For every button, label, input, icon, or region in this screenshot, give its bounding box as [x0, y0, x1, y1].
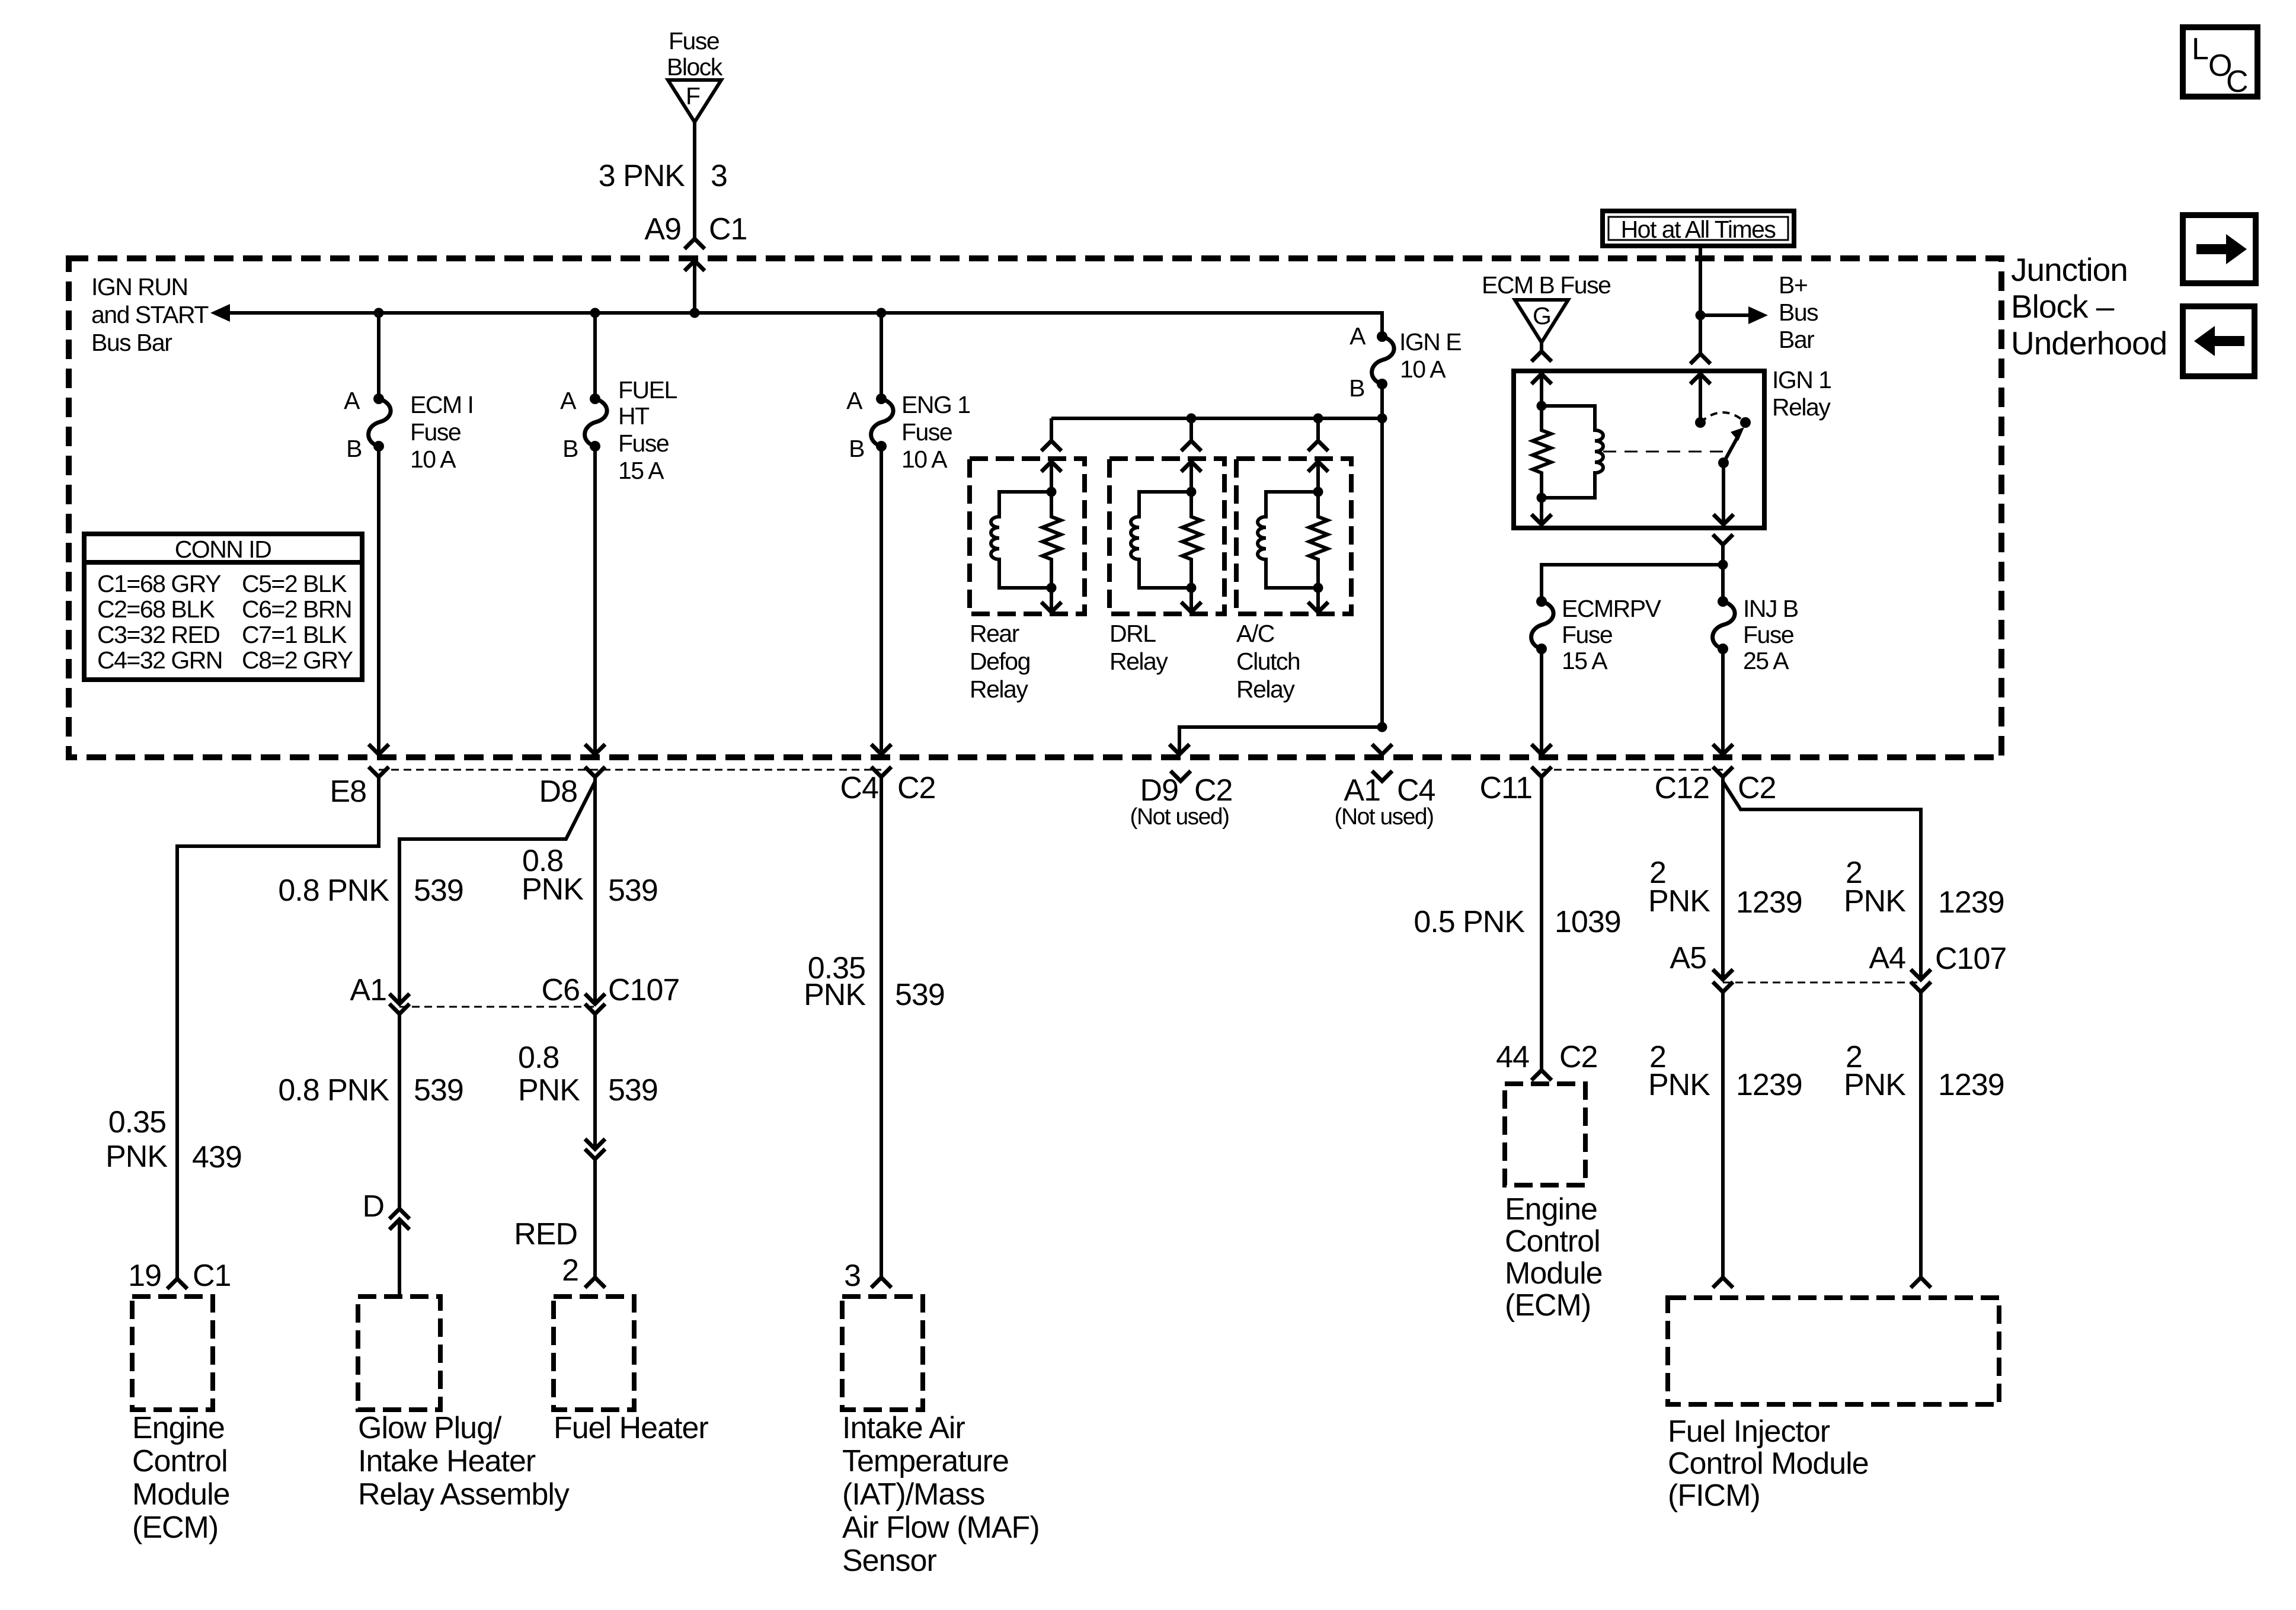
svg-text:C3=32 RED: C3=32 RED	[97, 621, 219, 648]
svg-text:ECM B Fuse: ECM B Fuse	[1482, 271, 1610, 299]
svg-text:C1: C1	[193, 1259, 231, 1293]
svg-text:C7=1 BLK: C7=1 BLK	[242, 621, 347, 648]
wire: bus to ENG 1 fuse	[880, 313, 883, 399]
svg-text:Temperature: Temperature	[842, 1444, 1009, 1478]
svg-text:C12: C12	[1655, 771, 1709, 805]
svg-text:Air Flow (MAF): Air Flow (MAF)	[842, 1510, 1040, 1545]
svg-text:B: B	[562, 435, 578, 462]
wire: ECMRPV fuse to C11	[1540, 649, 1543, 754]
svg-text:1039: 1039	[1555, 905, 1621, 939]
svg-text:IGN E: IGN E	[1399, 328, 1461, 356]
svg-text:PNK: PNK	[522, 872, 584, 907]
svg-text:PNK: PNK	[105, 1140, 168, 1174]
svg-text:19: 19	[128, 1259, 161, 1293]
arrow at border (E8)	[369, 744, 389, 754]
svg-text:Fuel Injector: Fuel Injector	[1668, 1414, 1830, 1449]
node: D9 branch	[1377, 722, 1387, 732]
connector chevrons into FICM	[1713, 1278, 1733, 1288]
fuse IGN E 10 A	[1372, 331, 1395, 389]
in-line connector C107 dashed	[399, 1006, 595, 1008]
node: ECM I drop	[374, 308, 384, 318]
Hot at All Times box	[1603, 211, 1794, 246]
relay K2 DRL Relay	[1109, 418, 1224, 614]
wire D8 branch to glow plug relay	[399, 782, 595, 1004]
wire to ECMRPV fuse	[1542, 565, 1723, 601]
svg-text:(Not used): (Not used)	[1130, 804, 1229, 830]
relay K1 Rear Defog Relay	[970, 418, 1085, 614]
svg-text:0.35: 0.35	[108, 1105, 166, 1140]
svg-text:A: A	[560, 387, 577, 414]
svg-text:Glow Plug/: Glow Plug/	[358, 1411, 502, 1445]
svg-text:Bus Bar: Bus Bar	[91, 329, 172, 356]
node: FUEL HT drop	[590, 308, 600, 318]
svg-text:PNK: PNK	[518, 1073, 580, 1108]
svg-text:ECM I: ECM I	[410, 391, 473, 418]
wire: ECM I fuse to E8	[377, 446, 380, 754]
svg-text:Fuse: Fuse	[901, 418, 952, 446]
svg-text:PNK: PNK	[1844, 1068, 1906, 1102]
svg-text:Block –: Block –	[2011, 288, 2115, 325]
junction block dashed border	[69, 258, 2001, 757]
module box Engine Control Module (right)	[1505, 1084, 1585, 1185]
wire: battery feed	[1699, 246, 1702, 354]
svg-text:C11: C11	[1479, 771, 1532, 805]
svg-text:25 A: 25 A	[1743, 647, 1789, 674]
wire A5 to FICM	[1721, 992, 1725, 1278]
wire: bus to ECM I fuse	[377, 313, 380, 399]
svg-text:Sensor: Sensor	[842, 1544, 936, 1578]
arrow at border (D8)	[585, 744, 605, 754]
fuse FUEL HT 15 A	[585, 393, 607, 452]
wire E8 to ECM pin 19	[177, 777, 379, 1279]
arrow at border (A1)	[1372, 744, 1392, 754]
coil	[991, 492, 1051, 588]
svg-text:Module: Module	[132, 1477, 230, 1512]
resistor	[1309, 492, 1328, 588]
svg-text:539: 539	[895, 978, 945, 1012]
svg-text:10 A: 10 A	[410, 446, 456, 473]
svg-text:3: 3	[711, 159, 727, 193]
connector face thin dashed line	[379, 769, 881, 771]
svg-text:C107: C107	[608, 973, 679, 1007]
node E8 connector	[369, 767, 389, 777]
svg-text:IGN 1: IGN 1	[1772, 366, 1831, 393]
svg-text:C1=68 GRY: C1=68 GRY	[97, 570, 221, 597]
wire A1 to terminal D	[398, 1014, 401, 1209]
actuation dashed line from coil	[1603, 451, 1723, 453]
svg-text:C5=2 BLK: C5=2 BLK	[242, 570, 347, 597]
svg-text:Relay: Relay	[1236, 676, 1295, 703]
wire from fuse block	[693, 122, 696, 239]
svg-text:A5: A5	[1670, 941, 1706, 975]
svg-text:Fuse: Fuse	[1743, 621, 1793, 648]
LOC reference box	[2183, 27, 2257, 97]
wire: ENG 1 fuse to C4	[880, 446, 883, 754]
svg-text:C6=2 BRN: C6=2 BRN	[242, 596, 351, 623]
wire C11 to ECM pin 44	[1540, 777, 1543, 1070]
svg-text:B+: B+	[1779, 271, 1807, 299]
svg-text:(ECM): (ECM)	[132, 1510, 218, 1545]
svg-text:C1: C1	[709, 212, 747, 247]
svg-text:1239: 1239	[1938, 1068, 2004, 1102]
connector chevron into IGN 1 relay (B+)	[1690, 354, 1710, 364]
svg-text:E8: E8	[330, 774, 366, 809]
arrow at border (C4)	[871, 744, 891, 754]
svg-text:0.8 PNK: 0.8 PNK	[278, 1073, 389, 1108]
svg-text:L: L	[2192, 32, 2209, 66]
svg-text:ECMRPV: ECMRPV	[1562, 595, 1662, 622]
connector chevron at junction block entry	[685, 239, 705, 249]
svg-text:A/C: A/C	[1236, 620, 1275, 647]
svg-text:C2: C2	[1738, 771, 1776, 805]
wire: branch to D9	[1179, 727, 1382, 754]
relay output connector chevron	[1713, 534, 1733, 545]
svg-text:A9: A9	[644, 212, 681, 247]
svg-text:RED: RED	[514, 1217, 577, 1251]
svg-text:C6: C6	[542, 973, 580, 1007]
wire branch to FICM right	[1723, 782, 1921, 980]
svg-text:Fuel Heater: Fuel Heater	[554, 1411, 708, 1445]
svg-text:CONN ID: CONN ID	[175, 536, 271, 563]
svg-text:(FICM): (FICM)	[1668, 1478, 1760, 1513]
svg-text:539: 539	[608, 873, 658, 908]
svg-text:Fuse: Fuse	[618, 430, 669, 457]
in-line connector C107 dashed (right)	[1723, 982, 1921, 984]
bus bar arrow (left)	[210, 304, 230, 322]
node: A/C relay feed	[1313, 414, 1323, 424]
node: output split	[1718, 560, 1728, 570]
svg-text:C2: C2	[897, 771, 935, 805]
connector chevron into ECM	[167, 1279, 187, 1289]
fuse block triangle F	[668, 80, 721, 122]
B+ bus bar arrow	[1700, 313, 1750, 317]
coil	[1131, 492, 1191, 588]
svg-text:3 PNK: 3 PNK	[599, 159, 686, 193]
fuse INJ B 25 A	[1713, 596, 1735, 654]
svg-text:B: B	[1349, 375, 1364, 402]
svg-text:3: 3	[844, 1259, 861, 1293]
svg-text:Hot at All Times: Hot at All Times	[1621, 216, 1776, 243]
module box Fuel Heater	[554, 1297, 634, 1410]
svg-text:15 A: 15 A	[1562, 647, 1608, 674]
fuse ENG 1 10 A	[871, 393, 894, 452]
svg-text:PNK: PNK	[804, 978, 866, 1012]
fuse symbol triangle G (ECM B Fuse)	[1515, 300, 1568, 343]
svg-text:A: A	[846, 387, 863, 414]
arrow into junction block	[685, 261, 705, 271]
svg-text:DRL: DRL	[1109, 620, 1156, 647]
svg-text:2: 2	[562, 1253, 578, 1288]
svg-text:B: B	[346, 435, 362, 462]
svg-text:Defog: Defog	[970, 648, 1030, 675]
wire: INJ B fuse to C12	[1721, 649, 1725, 754]
bus bar wire	[229, 313, 1382, 337]
forward arrow box	[2183, 215, 2256, 283]
module box IAT/MAF sensor	[842, 1297, 923, 1410]
svg-text:Relay: Relay	[1772, 393, 1831, 421]
module box Engine Control Module	[132, 1297, 213, 1410]
switch travel dashed arc	[1700, 412, 1745, 422]
svg-text:C2: C2	[1559, 1040, 1597, 1074]
svg-text:Clutch: Clutch	[1236, 648, 1300, 675]
svg-text:HT: HT	[618, 402, 650, 430]
wire A4 to FICM	[1919, 992, 1923, 1278]
svg-text:44: 44	[1496, 1040, 1529, 1074]
svg-text:Fuse: Fuse	[1562, 621, 1612, 648]
fuse ECMRPV 15 A	[1531, 596, 1554, 654]
module box Fuel Injector Control Module	[1668, 1298, 1999, 1404]
resistor (IGN 1 relay)	[1533, 406, 1551, 498]
svg-text:D9: D9	[1140, 773, 1178, 808]
svg-text:PNK: PNK	[1648, 884, 1710, 918]
back arrow box	[2183, 306, 2255, 376]
svg-text:Intake Air: Intake Air	[842, 1411, 965, 1445]
node: switch common	[1695, 417, 1706, 428]
wire: bus to FUEL HT fuse	[593, 313, 597, 399]
resistor	[1182, 492, 1201, 588]
wire C12 to FICM left	[1721, 777, 1725, 980]
svg-text:Fuse: Fuse	[410, 418, 461, 446]
coil (IGN 1 relay)	[1542, 406, 1603, 498]
svg-text:A: A	[1350, 322, 1366, 350]
node: fuse block feed joins bus	[690, 308, 700, 318]
node: switch NO contact	[1740, 417, 1751, 428]
svg-text:Bus: Bus	[1779, 299, 1818, 326]
connector C6 chevrons	[585, 994, 605, 1004]
svg-text:(IAT)/Mass: (IAT)/Mass	[842, 1477, 984, 1512]
svg-text:0.5 PNK: 0.5 PNK	[1414, 905, 1525, 939]
svg-text:B: B	[849, 435, 864, 462]
connector chevron into IAT/MAF	[871, 1278, 891, 1288]
svg-text:Control Module: Control Module	[1668, 1446, 1869, 1481]
svg-text:539: 539	[608, 1073, 658, 1108]
svg-text:A1: A1	[1344, 773, 1380, 808]
svg-text:1239: 1239	[1938, 885, 2004, 920]
svg-text:Engine: Engine	[132, 1411, 225, 1445]
svg-text:Control: Control	[1505, 1224, 1600, 1259]
svg-text:Bar: Bar	[1779, 326, 1814, 353]
relay K3 A/C Clutch Relay	[1236, 418, 1351, 614]
svg-text:C107: C107	[1935, 942, 2006, 976]
in-line splice chevrons	[585, 1139, 605, 1149]
svg-text:D8: D8	[539, 774, 577, 809]
svg-text:539: 539	[414, 873, 463, 908]
relay K4 IGN 1 Relay box	[1514, 371, 1764, 528]
connector chevron into IGN 1 relay (ECM B)	[1531, 351, 1552, 361]
CONN ID table	[84, 534, 362, 680]
svg-text:PNK: PNK	[1648, 1068, 1710, 1102]
svg-text:0.8: 0.8	[518, 1041, 559, 1075]
node: coil bottom	[1537, 493, 1547, 503]
svg-text:PNK: PNK	[1844, 884, 1906, 918]
svg-text:INJ B: INJ B	[1743, 595, 1798, 622]
svg-text:A1: A1	[350, 973, 386, 1007]
svg-text:C4=32 GRN: C4=32 GRN	[97, 646, 222, 674]
connector chevron into ECM	[1531, 1070, 1552, 1080]
node: switch output	[1718, 457, 1729, 468]
wire C2 to IAT/MAF sensor	[880, 777, 883, 1278]
node: B+ bus bar tap	[1696, 311, 1706, 321]
svg-text:FUEL: FUEL	[618, 376, 677, 404]
svg-text:C2: C2	[1194, 773, 1232, 808]
svg-text:C4: C4	[1397, 773, 1435, 808]
svg-text:Underhood: Underhood	[2011, 325, 2167, 361]
module box Glow Plug/Intake Heater Relay Assembly	[358, 1297, 440, 1410]
node D8 connector	[585, 767, 605, 777]
svg-text:Engine: Engine	[1505, 1192, 1597, 1227]
svg-text:C: C	[2226, 65, 2249, 99]
svg-text:A: A	[344, 387, 360, 414]
svg-text:Relay Assembly: Relay Assembly	[358, 1477, 570, 1512]
svg-text:0.8 PNK: 0.8 PNK	[278, 873, 389, 908]
svg-text:IGN RUN: IGN RUN	[91, 273, 188, 300]
svg-text:10 A: 10 A	[901, 446, 948, 473]
svg-text:15 A: 15 A	[618, 457, 664, 484]
svg-text:439: 439	[192, 1140, 242, 1174]
svg-text:Control: Control	[132, 1444, 228, 1478]
arrow at border (D9)	[1169, 744, 1189, 754]
svg-text:C4: C4	[840, 771, 879, 805]
svg-text:Intake Heater: Intake Heater	[358, 1444, 536, 1478]
svg-text:539: 539	[414, 1073, 463, 1108]
svg-text:1239: 1239	[1736, 885, 1802, 920]
svg-text:Fuse: Fuse	[669, 27, 719, 55]
svg-text:(Not used): (Not used)	[1334, 804, 1433, 830]
relay feed wire	[1051, 417, 1382, 420]
svg-text:Relay: Relay	[970, 676, 1028, 703]
node: DRL relay feed	[1187, 414, 1197, 424]
svg-text:A4: A4	[1869, 941, 1905, 975]
wire D8 to fuel heater	[593, 777, 597, 1004]
connector chevron into fuel heater	[585, 1278, 605, 1288]
svg-text:C2=68 BLK: C2=68 BLK	[97, 596, 215, 623]
fuse ECM I 10 A	[369, 393, 391, 452]
svg-text:D: D	[362, 1189, 384, 1224]
svg-text:C8=2 GRY: C8=2 GRY	[242, 646, 353, 674]
svg-text:(ECM): (ECM)	[1505, 1288, 1591, 1323]
svg-text:1239: 1239	[1736, 1068, 1802, 1102]
coil	[1258, 492, 1318, 588]
coil-side entry arrow	[1531, 374, 1552, 384]
node: relay feed	[1377, 414, 1387, 424]
svg-text:10 A: 10 A	[1400, 356, 1446, 383]
svg-text:ENG 1: ENG 1	[901, 391, 970, 418]
switch blade with arrow	[1723, 438, 1737, 463]
wire: FUEL HT fuse to D8	[593, 446, 597, 754]
wire: IGN E fuse to relay feed node	[1380, 384, 1384, 727]
node: ENG 1 drop	[877, 308, 887, 318]
wire down to bus bar	[693, 261, 696, 313]
svg-text:and START: and START	[91, 301, 209, 328]
svg-text:Junction: Junction	[2011, 251, 2128, 288]
svg-text:F: F	[686, 82, 700, 110]
switch-side entry arrow	[1690, 374, 1710, 384]
svg-text:G: G	[1533, 302, 1550, 329]
node: coil top	[1537, 401, 1547, 411]
svg-text:Module: Module	[1505, 1256, 1603, 1291]
resistor	[1043, 492, 1061, 588]
svg-text:Relay: Relay	[1109, 648, 1168, 675]
svg-text:Block: Block	[667, 53, 723, 81]
svg-text:Rear: Rear	[970, 620, 1019, 647]
